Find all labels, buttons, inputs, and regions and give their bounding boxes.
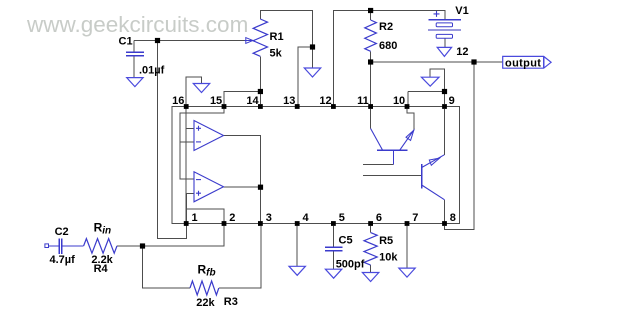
svg-text:12: 12 <box>456 46 468 58</box>
svg-text:680: 680 <box>379 40 397 52</box>
svg-text:www.geekcircuits.com: www.geekcircuits.com <box>26 12 248 37</box>
svg-text:R2: R2 <box>379 21 393 33</box>
svg-text:4: 4 <box>303 212 310 224</box>
svg-text:R5: R5 <box>379 235 393 247</box>
svg-text:R1: R1 <box>270 31 284 43</box>
svg-text:10k: 10k <box>379 251 398 263</box>
svg-text:3: 3 <box>266 212 272 224</box>
svg-text:R3: R3 <box>224 296 238 308</box>
svg-text:R4: R4 <box>94 263 109 275</box>
svg-text:4.7µf: 4.7µf <box>50 254 76 266</box>
svg-text:10: 10 <box>393 95 405 107</box>
svg-text:8: 8 <box>450 212 456 224</box>
svg-text:9: 9 <box>449 95 455 107</box>
svg-text:5: 5 <box>339 212 345 224</box>
svg-text:6: 6 <box>376 212 382 224</box>
svg-text:C2: C2 <box>55 226 69 238</box>
svg-text:500pf: 500pf <box>336 259 365 271</box>
svg-text:12: 12 <box>319 95 331 107</box>
svg-text:14: 14 <box>246 95 259 107</box>
svg-text:16: 16 <box>172 95 184 107</box>
svg-text:output: output <box>505 57 541 69</box>
svg-text:13: 13 <box>283 95 295 107</box>
svg-text:Rin: Rin <box>94 221 112 237</box>
svg-text:2: 2 <box>229 212 235 224</box>
svg-text:Rfb: Rfb <box>198 263 216 279</box>
svg-text:15: 15 <box>210 95 222 107</box>
svg-text:1: 1 <box>192 212 198 224</box>
svg-text:7: 7 <box>412 212 418 224</box>
svg-text:22k: 22k <box>196 297 215 309</box>
svg-text:5k: 5k <box>270 48 283 60</box>
svg-text:11: 11 <box>357 95 369 107</box>
svg-text:C1: C1 <box>119 35 133 47</box>
svg-text:.01µf: .01µf <box>139 64 165 76</box>
svg-text:C5: C5 <box>339 234 353 246</box>
svg-text:V1: V1 <box>455 5 468 17</box>
